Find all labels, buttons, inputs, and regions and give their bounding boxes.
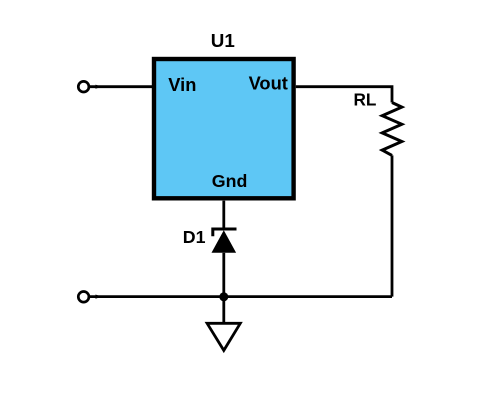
junction node bbox=[219, 292, 228, 301]
wire Gnd pin down to diode bbox=[222, 201, 225, 230]
diode D1 bbox=[212, 229, 237, 253]
wire Vout to resistor top bbox=[296, 87, 392, 103]
wire diode to junction bbox=[222, 253, 225, 297]
svg-text:RL: RL bbox=[354, 89, 377, 109]
port terminal P2 (bottom rail) bbox=[78, 292, 89, 303]
wire junction to ground bbox=[222, 297, 225, 324]
port terminal P1 (input) bbox=[78, 81, 89, 92]
ground bbox=[207, 323, 240, 350]
wire bottom rail bbox=[90, 295, 392, 299]
wire resistor bottom down to bottom rail bbox=[391, 155, 394, 296]
svg-text:D1: D1 bbox=[183, 227, 206, 247]
svg-text:U1: U1 bbox=[211, 30, 235, 51]
svg-text:Vin: Vin bbox=[168, 74, 196, 95]
wire input to Vin bbox=[90, 85, 152, 89]
svg-text:Gnd: Gnd bbox=[212, 171, 248, 191]
resistor RL bbox=[382, 103, 402, 156]
svg-text:Vout: Vout bbox=[249, 72, 288, 93]
IC U1 (regulator box) bbox=[154, 59, 294, 198]
